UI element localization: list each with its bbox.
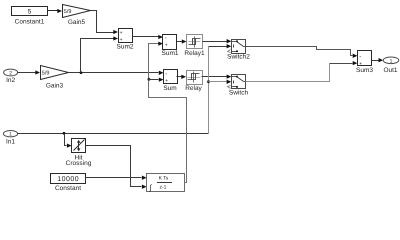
svg-text:Out1: Out1 [383,67,397,74]
wire Relay1 to Switch2 input 1 [203,39,232,43]
svg-text:5/9: 5/9 [64,9,72,15]
svg-text:Constant: Constant [55,185,81,192]
wire Sum1 to Relay1 [177,39,187,43]
svg-text:+: + [120,30,123,36]
wire control branch to Switch input 2 [209,80,232,84]
relay Relay [185,71,202,92]
wire integrator output feedback loop [149,41,187,182]
wire Constant to integrator input 1 [86,176,147,180]
svg-text:1: 1 [390,58,393,64]
output port Out1 [383,57,399,74]
svg-text:Sum2: Sum2 [117,44,134,51]
input port In2 [4,69,18,84]
svg-text:2: 2 [9,71,12,77]
wire Sum2 to Sum1 input 1 [133,35,164,39]
switch block Switch2 [227,40,250,61]
svg-text:Relay1: Relay1 [184,50,205,57]
svg-text:Gain3: Gain3 [46,83,64,90]
constant block Constant1 [12,7,48,26]
svg-text:In2: In2 [6,77,15,84]
node junction feedback to Sum [148,78,151,81]
discrete-time integrator block [147,174,185,193]
svg-text:Sum3: Sum3 [356,67,373,74]
svg-text:+: + [165,78,168,84]
svg-text:10000: 10000 [57,176,79,183]
svg-text:K Ts: K Ts [159,175,169,181]
svg-text:-: - [165,71,167,77]
wire Switch to Sum3 input 2 [246,61,358,82]
node junction In1 to Hit Crossing [63,132,66,135]
node junction control to Switch [207,80,210,83]
gain Gain3 [41,66,69,90]
sum block Sum1 [162,35,179,57]
svg-text:1: 1 [9,132,12,138]
svg-text:-: - [165,36,167,42]
svg-text:z-1: z-1 [160,185,167,191]
wire feedback branch to Sum input 2 [149,77,164,81]
wire In1 main run to switches control [18,44,232,133]
relay Relay1 [184,35,205,57]
gain Gain5 [63,5,91,27]
wire junction up to Sum2 input 2 [81,36,119,72]
node junction on Gain3 output [80,71,83,74]
input port In1 [3,131,17,146]
svg-text:Relay: Relay [185,85,202,92]
wire Relay to Switch input 1 [202,74,232,78]
wire In2 to Gain3 [18,70,41,74]
constant block Constant [51,174,86,193]
svg-text:+: + [359,61,362,67]
wire Gain3 to Sum input 1 [69,71,164,75]
svg-text:Crossing: Crossing [66,160,92,167]
sum block Sum3 [356,51,373,75]
wire In1 branch down to Hit Crossing [65,134,72,148]
sum block Sum [163,70,177,92]
svg-text:In1: In1 [6,139,15,146]
svg-text:Sum1: Sum1 [162,50,179,57]
sum block Sum2 [117,29,134,51]
svg-text:Switch: Switch [229,90,249,97]
svg-text:Constant1: Constant1 [15,18,45,25]
svg-text:Sum: Sum [163,85,176,92]
wire Gain5 to Sum2 input 1 [91,11,119,35]
svg-text:+: + [165,42,168,48]
wire Sum3 to Out1 [372,58,384,62]
svg-text:-: - [359,54,361,60]
wire Constant1 to Gain5 [48,9,63,13]
svg-text:5/9: 5/9 [42,71,50,77]
wire Switch2 to Sum3 input 1 [246,47,358,58]
unconnected port marker Switch input 3 [228,86,231,89]
svg-text:5: 5 [28,8,32,15]
unconnected port marker Switch2 input 3 [228,50,231,53]
switch block Switch [229,75,249,97]
svg-text:Switch2: Switch2 [227,54,250,61]
wire Hit Crossing to integrator input 2 [86,146,147,189]
wire Sum to Relay [177,75,187,79]
hit crossing block [66,139,92,167]
svg-text:Gain5: Gain5 [68,19,86,26]
svg-text:+: + [120,37,123,43]
